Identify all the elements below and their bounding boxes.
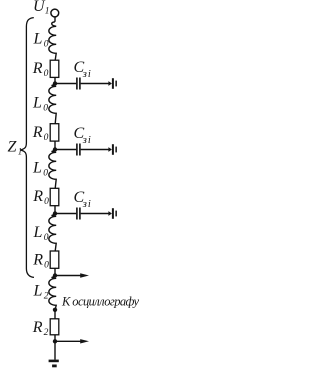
resistor R0 (3): [50, 188, 59, 205]
inductor L2: [49, 277, 56, 310]
wire arrow to oscilloscope: [55, 275, 81, 277]
inductor L0 (2): [49, 85, 56, 124]
svg-text:0: 0: [44, 261, 49, 271]
svg-text:L: L: [33, 31, 43, 48]
label R0 (3): [32, 188, 49, 207]
wire: [54, 335, 56, 342]
wire: [54, 77, 56, 83]
wire branch 2: [55, 149, 76, 151]
label L0 (4): [33, 224, 49, 243]
label R0 (1): [32, 60, 49, 79]
resistor R0 (1): [50, 60, 59, 77]
wire branch 1 continued: [81, 83, 109, 85]
resistor R0 (2): [50, 124, 59, 141]
label L0 (2): [32, 95, 48, 114]
label C3i (1): [74, 59, 91, 80]
svg-text:0: 0: [44, 133, 49, 143]
svg-text:L: L: [32, 160, 42, 177]
svg-text:L: L: [32, 95, 42, 112]
wire branch 1: [55, 83, 76, 85]
svg-text:0: 0: [43, 169, 48, 179]
wire branch 3: [55, 213, 76, 215]
svg-text:0: 0: [44, 197, 49, 207]
svg-text:зі: зі: [82, 199, 91, 210]
svg-text:0: 0: [44, 233, 49, 243]
label R0 (4): [32, 252, 49, 271]
label U1: [33, 0, 50, 17]
bracket Zi (curly brace): [20, 18, 34, 278]
wire branch 2 continued: [81, 149, 109, 151]
wire: [54, 310, 56, 319]
svg-text:Z: Z: [8, 139, 18, 156]
terminal arrow symbol (2): [108, 144, 117, 155]
label R0 (2): [32, 124, 49, 143]
svg-text:R: R: [32, 60, 43, 77]
svg-text:1: 1: [45, 7, 50, 17]
svg-text:0: 0: [44, 40, 49, 50]
label to oscilloscope: [61, 295, 139, 309]
junction node 5: [53, 308, 57, 312]
capacitor C3i (3): [77, 208, 80, 220]
svg-text:L: L: [33, 283, 43, 300]
svg-text:1: 1: [18, 146, 23, 156]
wire: [54, 206, 56, 214]
svg-text:R: R: [32, 124, 43, 141]
svg-text:L: L: [33, 224, 43, 241]
svg-text:зі: зі: [82, 135, 91, 146]
label C3i (2): [74, 125, 91, 146]
label L0 (3): [32, 160, 48, 179]
wire: [54, 268, 56, 275]
capacitor C3i (2): [77, 144, 80, 156]
svg-text:0: 0: [44, 69, 49, 79]
wire: [54, 17, 56, 22]
label C3i (3): [74, 189, 91, 210]
label R2: [32, 319, 49, 338]
svg-text:зі: зі: [82, 69, 91, 80]
svg-text:R: R: [32, 252, 43, 269]
wire to ground: [54, 341, 56, 359]
svg-text:2: 2: [44, 328, 49, 338]
ground: [49, 360, 59, 368]
resistor R2: [50, 319, 59, 335]
svg-text:2: 2: [44, 292, 49, 302]
wire: [54, 141, 56, 149]
inductor L0 (4): [49, 215, 56, 251]
inductor L0 (1): [49, 22, 56, 60]
junction node 3: [53, 211, 57, 215]
svg-text:R: R: [32, 319, 43, 336]
wire output arrow: [55, 340, 81, 342]
inductor L0 (3): [49, 151, 56, 189]
svg-text:0: 0: [43, 104, 48, 114]
label Zi: [8, 139, 23, 157]
label L0 (1): [33, 31, 49, 50]
arrowhead output: [80, 339, 89, 343]
junction node 1: [53, 81, 57, 85]
terminal arrow symbol (3): [108, 208, 117, 219]
svg-text:R: R: [32, 188, 43, 205]
label L2: [33, 283, 49, 302]
junction node 6: [53, 339, 57, 343]
resistor R0 (4): [50, 251, 59, 268]
arrowhead to oscilloscope: [80, 273, 89, 277]
wire branch 3 continued: [81, 213, 109, 215]
node U1 terminal: [51, 9, 59, 17]
junction node 4: [53, 273, 57, 277]
svg-text:К осциллографу: К осциллографу: [61, 295, 139, 309]
junction node 2: [53, 147, 57, 151]
capacitor C3i (1): [77, 78, 80, 90]
terminal arrow symbol (1): [108, 78, 117, 89]
